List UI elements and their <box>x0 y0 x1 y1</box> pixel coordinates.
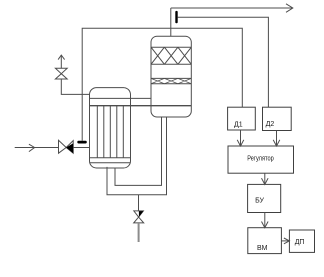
vent pipe from exchanger to valve V2 <box>61 79 89 94</box>
pipe valve V1 to exchanger <box>73 147 89 149</box>
E1 pipe through column <box>90 105 192 107</box>
E1 upper tube sheet / pipe to column <box>90 97 152 99</box>
svg-text:Д1: Д1 <box>234 122 243 129</box>
box BU <box>248 184 281 212</box>
sensor line to D2 <box>178 17 269 107</box>
box Regulator <box>228 146 294 173</box>
feed arrow head <box>29 144 35 151</box>
packing X lattice <box>151 47 191 64</box>
narrow band top line <box>151 77 191 79</box>
svg-text:Д2: Д2 <box>266 121 275 128</box>
box D2 <box>263 107 292 130</box>
column C1 shell <box>151 36 191 117</box>
overhead riser <box>170 8 172 36</box>
sensor tap bar on overhead line <box>175 11 177 23</box>
valve V1 fill <box>66 143 73 153</box>
box VM <box>248 228 282 254</box>
wire regulator to BU <box>264 173 266 184</box>
valve V1 left triangle <box>59 140 67 153</box>
svg-text:БУ: БУ <box>255 198 264 205</box>
drain outlet <box>138 223 140 242</box>
feed line <box>15 147 59 149</box>
heat exchanger E1 shell <box>90 88 131 168</box>
E1 tubes <box>96 106 98 158</box>
packing section top line <box>151 46 191 48</box>
svg-text:ДП: ДП <box>295 239 305 246</box>
bottom pipe inner <box>115 117 162 186</box>
bottom pipe outer <box>107 117 167 195</box>
wire D1 to regulator <box>240 130 242 146</box>
sensor line to D1 <box>82 28 242 141</box>
packing section bottom line <box>151 63 191 65</box>
wire D2 to regulator <box>276 131 278 147</box>
box DP <box>289 230 314 252</box>
drain valve V3 bottom triangle <box>134 217 144 223</box>
drain valve V3 fill <box>139 211 144 217</box>
wire BU to VM <box>264 213 266 228</box>
overhead line <box>171 7 293 9</box>
wire VM to DP <box>281 240 289 242</box>
E1 lower tube sheet <box>90 157 131 159</box>
vent valve V2 top triangle <box>55 68 67 74</box>
valve V1 right triangle outline <box>66 141 73 154</box>
narrow band lattice <box>151 78 191 83</box>
overhead arrow head <box>286 4 293 13</box>
narrow band bottom line <box>151 83 191 85</box>
drain valve V3 top triangle <box>134 211 144 217</box>
svg-text:Регулятор: Регулятор <box>247 156 274 163</box>
sensor tap dash on feed line <box>77 141 87 144</box>
drain line <box>138 195 140 211</box>
svg-text:ВМ: ВМ <box>257 245 268 252</box>
box D1 <box>228 107 256 130</box>
vent valve V2 bottom triangle <box>55 74 67 79</box>
vent line with up arrow <box>60 55 62 68</box>
